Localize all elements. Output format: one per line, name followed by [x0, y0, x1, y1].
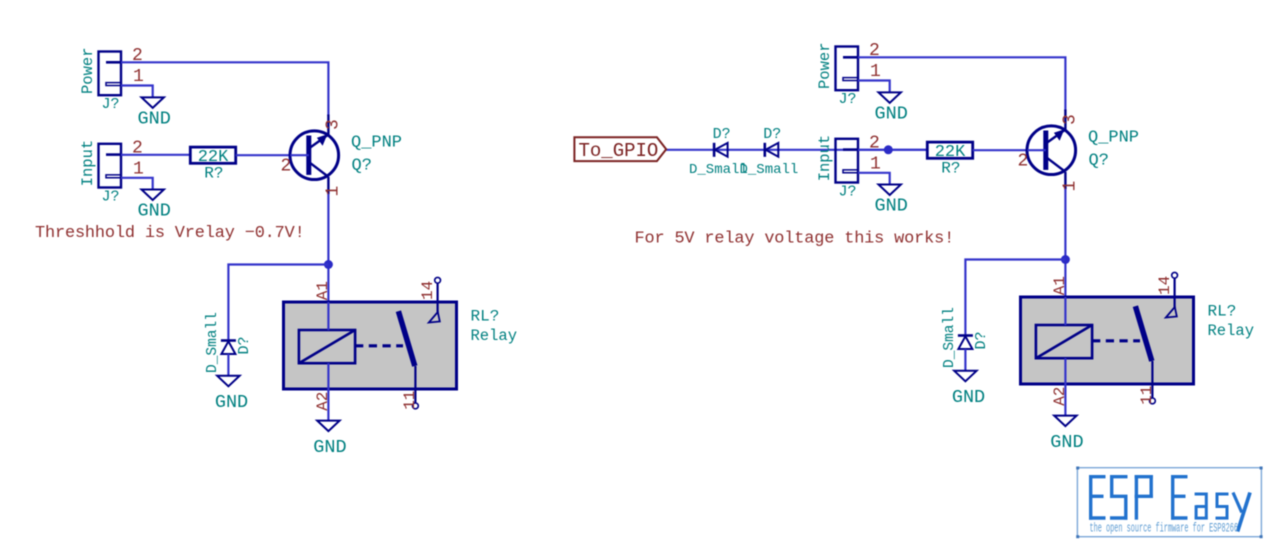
connector J? (Input) [816, 135, 858, 201]
node junction (left) [324, 260, 333, 269]
diode D? D_Small (series 1) [689, 126, 748, 178]
svg-text:GND: GND [1050, 432, 1083, 453]
wire Input pin2 to R (right) [858, 149, 927, 151]
svg-text:A1: A1 [1051, 276, 1069, 295]
logo frame corner marks [1076, 467, 1262, 539]
svg-text:1: 1 [870, 154, 881, 174]
resistor R? 22K [190, 147, 235, 182]
svg-text:A2: A2 [1051, 387, 1069, 406]
svg-text:J?: J? [102, 96, 120, 113]
relay RL? [1021, 297, 1194, 384]
relay pin 11 (left) [413, 366, 419, 409]
svg-text:11: 11 [401, 391, 419, 410]
diode D? D_Small (flyback) [205, 312, 253, 376]
ground (diode left) [215, 376, 248, 413]
svg-text:R?: R? [941, 160, 960, 178]
svg-text:2: 2 [281, 157, 292, 177]
diode D? D_Small (flyback) [942, 307, 990, 371]
ground (Power left) [138, 97, 171, 129]
svg-text:D?: D? [763, 126, 781, 143]
svg-text:To_GPIO: To_GPIO [579, 140, 659, 162]
ESP Easy logo [1076, 467, 1262, 539]
svg-text:J?: J? [839, 183, 857, 200]
ground (relay A2 left) [313, 421, 346, 458]
connector J? (Power) [79, 47, 121, 113]
svg-text:1: 1 [133, 67, 144, 87]
net label To_GPIO [574, 137, 666, 162]
svg-text:RL?: RL? [1208, 303, 1237, 321]
wire Input pin1 to GND (left) [121, 178, 153, 190]
connector J? (Input) [79, 140, 121, 206]
relay coil (left) [299, 330, 355, 363]
node junction at Input pin2 (right) [884, 145, 893, 154]
svg-text:14: 14 [419, 281, 437, 300]
svg-text:D?: D? [236, 336, 253, 354]
logo letter E [1089, 475, 1092, 520]
wire junction to flyback diode (right) [965, 260, 1065, 335]
relay name RL? (right) [1208, 303, 1255, 341]
wire Input pin2 to R (left) [121, 154, 190, 156]
svg-text:1: 1 [133, 159, 144, 179]
svg-text:D_Small: D_Small [205, 312, 221, 373]
wire Q pin1 to relay A1 (right) [1064, 189, 1066, 325]
wire R to Q base (left) [236, 154, 307, 156]
logo letter s [1216, 493, 1229, 496]
ground (Input right) [875, 185, 908, 217]
svg-text:Input: Input [79, 140, 97, 187]
resistor R? 22K [927, 142, 972, 177]
relay pin 11 (right) [1150, 361, 1156, 404]
transistor Q? Q_PNP [1027, 110, 1139, 190]
svg-text:Power: Power [816, 42, 834, 89]
svg-text:J?: J? [102, 188, 120, 205]
relay name RL? (left) [471, 308, 518, 346]
wire Q pin1 to relay A1 (left) [327, 194, 329, 330]
svg-text:Threshhold is Vrelay −0.7V!: Threshhold is Vrelay −0.7V! [35, 224, 305, 243]
svg-text:Q?: Q? [352, 157, 372, 176]
relay pin 14 (left) [429, 277, 441, 322]
svg-text:14: 14 [1156, 276, 1174, 295]
svg-text:GND: GND [952, 387, 985, 408]
wire Power pin2 to Q pin3 (left) [121, 62, 328, 116]
wire Input pin1 to GND (right) [858, 173, 890, 185]
svg-text:A1: A1 [314, 281, 332, 300]
wire Power pin2 to Q pin3 (right) [858, 57, 1065, 111]
svg-text:GND: GND [875, 196, 908, 217]
svg-text:R?: R? [204, 165, 223, 183]
svg-text:For 5V relay voltage this work: For 5V relay voltage this works! [635, 229, 955, 248]
node junction (right) [1061, 255, 1070, 264]
svg-text:1: 1 [870, 62, 881, 82]
svg-text:D_Small: D_Small [942, 307, 958, 368]
relay pin 14 (right) [1166, 272, 1178, 317]
logo letter P [1135, 475, 1138, 520]
svg-text:D_Small: D_Small [740, 162, 799, 178]
ground (relay A2 right) [1050, 416, 1083, 453]
relay link dashed (left) [355, 344, 403, 347]
svg-text:GND: GND [138, 108, 171, 129]
svg-text:D?: D? [973, 331, 990, 349]
relay switch blade (left) [398, 311, 414, 366]
svg-text:2: 2 [1018, 152, 1029, 172]
logo letter y [1233, 493, 1242, 513]
svg-text:Q_PNP: Q_PNP [351, 134, 402, 153]
svg-text:Input: Input [816, 135, 834, 182]
logo letter E2 [1171, 475, 1174, 520]
wire junction to flyback diode (left) [228, 265, 328, 340]
relay A2 wire to GND (left) [327, 363, 329, 420]
svg-text:Relay: Relay [1208, 322, 1255, 340]
svg-text:GND: GND [215, 392, 248, 413]
ground (Power right) [875, 92, 908, 124]
relay switch blade (right) [1135, 306, 1151, 361]
svg-text:1: 1 [323, 186, 343, 197]
svg-text:1: 1 [1060, 181, 1080, 192]
svg-text:Power: Power [79, 47, 97, 94]
ground (diode right) [952, 371, 985, 408]
svg-text:Relay: Relay [471, 327, 518, 345]
svg-text:A2: A2 [314, 392, 332, 411]
svg-text:RL?: RL? [471, 308, 500, 326]
svg-text:GND: GND [875, 103, 908, 124]
relay RL? [284, 302, 457, 389]
relay A1 wire inside (left) [327, 302, 329, 330]
logo letter S [1110, 475, 1128, 478]
svg-text:3: 3 [323, 119, 343, 130]
connector J? (Power) [816, 42, 858, 108]
svg-text:GND: GND [313, 437, 346, 458]
relay link dashed (right) [1092, 339, 1140, 342]
wire To_GPIO net [666, 149, 927, 151]
svg-text:Q?: Q? [1089, 152, 1109, 171]
relay A2 wire to GND (right) [1064, 358, 1066, 415]
transistor Q? Q_PNP [290, 115, 402, 195]
svg-text:D?: D? [713, 126, 731, 143]
svg-text:11: 11 [1138, 386, 1156, 405]
svg-text:Q_PNP: Q_PNP [1088, 129, 1139, 148]
diode D? D_Small (series 2) [740, 126, 799, 178]
svg-text:GND: GND [138, 201, 171, 222]
wire R to Q base (right) [973, 149, 1044, 151]
svg-text:3: 3 [1060, 114, 1080, 125]
relay coil (right) [1036, 325, 1092, 358]
ground (Input left) [138, 190, 171, 222]
wire Power pin1 to GND (right) [858, 81, 890, 93]
logo letter a [1195, 493, 1207, 496]
svg-text:the open source firmware for E: the open source firmware for ESP8266 [1090, 522, 1239, 536]
svg-text:J?: J? [839, 91, 857, 108]
relay A1 wire inside (right) [1064, 297, 1066, 325]
wire Power pin1 to GND (left) [121, 86, 153, 98]
